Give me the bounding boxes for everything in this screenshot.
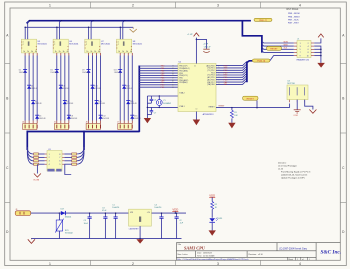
svg-text:HEADER 5X2: HEADER 5X2 — [297, 58, 310, 61]
bus lower right vertical — [83, 131, 85, 150]
svg-text:VDD: VDD — [172, 207, 178, 211]
wire U5 pin 3 column — [24, 53, 26, 124]
wire U6 pin B to bus — [59, 21, 61, 40]
net label oval RESET upper — [267, 46, 282, 50]
diode D6 label — [63, 86, 70, 90]
svg-text:RST Pinout: RST Pinout — [287, 8, 299, 11]
connector J4 — [22, 122, 37, 130]
svg-text:C8 .1uF: C8 .1uF — [204, 47, 212, 49]
svg-text:(C) 1997-2004 Kermit Gary: (C) 1997-2004 Kermit Gary — [279, 247, 308, 250]
svg-text:AT90S2313: AT90S2313 — [203, 113, 215, 116]
svg-text:4: 4 — [299, 4, 301, 8]
diode D12 — [98, 115, 102, 119]
power port VDD at LED — [209, 193, 215, 201]
svg-text:added D13-16, fixed Current: added D13-16, fixed Current — [281, 174, 308, 177]
svg-text:PB5 - MOSI: PB5 - MOSI — [288, 13, 300, 15]
diode D4 — [35, 115, 39, 119]
ground below CPU — [193, 120, 200, 126]
designator U2 — [179, 62, 182, 64]
wires RP1 to U1 — [39, 154, 48, 164]
junction on bus at U8 — [124, 20, 125, 21]
svg-text:4b: 4b — [98, 51, 100, 53]
resistor pack RP2 — [72, 153, 77, 165]
svg-text:3: 3 — [300, 46, 301, 48]
svg-text:2: 2 — [132, 4, 134, 8]
wire RESET net — [216, 105, 290, 107]
svg-text:4b: 4b — [35, 51, 37, 53]
svg-text:8.00MHZ: 8.00MHZ — [163, 103, 172, 105]
svg-text:7: 7 — [59, 157, 60, 159]
svg-text:V130LA2: V130LA2 — [65, 232, 73, 235]
title block date — [197, 252, 215, 258]
wires U1 to RP2 — [62, 154, 72, 164]
svg-text:+5 UP: +5 UP — [203, 44, 209, 46]
svg-text:Sheet: Sheet — [288, 258, 293, 261]
svg-text:Update Packages to DIPs: Update Packages to DIPs — [281, 177, 305, 180]
transistor U4 supervisor — [287, 81, 308, 103]
svg-text:1N4148: 1N4148 — [114, 72, 121, 74]
diode D13 — [118, 69, 122, 73]
wire XTAL1 — [147, 95, 178, 97]
svg-text:B: B — [342, 97, 344, 101]
wire U8 pin 6 column — [131, 53, 133, 124]
svg-text:1: 1 — [49, 154, 50, 156]
diode D6 — [59, 85, 63, 89]
connector J1 header — [297, 39, 311, 62]
label +5 UP — [187, 34, 193, 36]
svg-text:4: 4 — [49, 164, 50, 166]
diode D4 label — [39, 116, 46, 120]
wire RESET to U4 — [289, 104, 291, 108]
wire U8 pin 3 column — [119, 53, 121, 124]
ground below crystal — [144, 118, 151, 123]
power VCC arrow — [194, 33, 200, 37]
ground VCOM — [33, 174, 41, 182]
junction on COM line at U5 — [24, 27, 26, 29]
diode D11 — [94, 101, 98, 105]
svg-text:(PA) PA1: (PA) PA1 — [207, 83, 214, 86]
svg-text:3b: 3b — [63, 51, 65, 53]
capacitor C2 — [175, 212, 184, 238]
svg-text:XTAL2: XTAL2 — [179, 91, 184, 94]
wire U7 pin 5 column — [96, 53, 98, 124]
resistor pack RP1 — [34, 153, 39, 165]
capacitor C8 — [203, 44, 212, 53]
wire U3 ground pin — [139, 226, 141, 239]
voltage regulator U3 — [129, 209, 152, 230]
svg-text:J3: J3 — [15, 209, 17, 211]
title block Title — [177, 243, 182, 246]
wire crystal ground rail — [146, 96, 148, 118]
svg-text:PB7(AN0): PB7(AN0) — [179, 81, 187, 84]
capacitor C4 — [154, 205, 163, 239]
svg-text:1N4148: 1N4148 — [82, 72, 89, 74]
svg-text:2: 2 — [54, 44, 55, 46]
wire U7 pin 3 column — [88, 53, 90, 124]
wire COM line above driver ICs — [25, 26, 133, 28]
designator label U7 — [101, 41, 111, 46]
svg-text:RESET: RESET — [247, 98, 255, 100]
svg-text:3: 3 — [49, 161, 50, 163]
diode D8 — [67, 115, 71, 119]
ground at rail left — [28, 239, 35, 244]
wire fan from left bus to RP1 — [27, 147, 33, 164]
svg-text:1: 1 — [300, 43, 301, 45]
svg-text:Date: 10/8/2023: Date: 10/8/2023 — [197, 252, 213, 255]
diode D1 label — [19, 70, 26, 74]
svg-text:PB6 - MISO: PB6 - MISO — [288, 16, 300, 18]
svg-text:RESET: RESET — [209, 107, 216, 109]
ground COM below U4 — [293, 110, 300, 117]
title block size — [177, 253, 187, 256]
svg-text:RST - RST: RST - RST — [288, 23, 299, 25]
diode D13 label — [114, 70, 121, 74]
svg-text:MISO: MISO — [284, 45, 289, 47]
svg-text:J5: J5 — [54, 122, 56, 124]
diode D1 — [23, 69, 27, 73]
svg-text:J6: J6 — [86, 122, 88, 124]
svg-text:1N4148: 1N4148 — [63, 88, 70, 90]
svg-text:1N4148: 1N4148 — [126, 88, 133, 90]
svg-text:2b: 2b — [59, 51, 61, 53]
svg-text:PD1: PD1 — [161, 87, 165, 89]
svg-text:1N4148: 1N4148 — [102, 118, 109, 120]
wires bus to J1 left pins — [262, 41, 294, 52]
svg-text:Revision: v3.10: Revision: v3.10 — [249, 254, 264, 256]
net labels PB0-PD1 and pin numbers — [161, 66, 174, 89]
ground below LED1 — [209, 230, 216, 235]
wire U7 pin 4 column — [92, 53, 94, 124]
wire U5 pin A to COM line — [24, 27, 26, 39]
op-isolator U1 — [47, 149, 62, 172]
svg-text:RESET: RESET — [219, 105, 226, 107]
wire U6 pin 3 column — [56, 53, 58, 124]
wire U7 pin A to COM line — [88, 27, 90, 39]
svg-text:5: 5 — [59, 164, 60, 166]
designator label U5 — [38, 41, 48, 46]
title SAM3 CPU — [184, 246, 206, 251]
wire to capacitor C8 — [196, 39, 206, 49]
svg-text:8: 8 — [308, 52, 309, 54]
diode D5 — [55, 69, 59, 73]
svg-text:MOC3041: MOC3041 — [69, 44, 79, 46]
diode D16 label — [134, 116, 141, 120]
svg-text:2: 2 — [86, 44, 87, 46]
svg-text:5: 5 — [300, 49, 301, 51]
wire U8 pin 5 column — [127, 53, 129, 124]
wire PD bus to J1 pin9 — [270, 56, 294, 61]
svg-text:v1.0 Initial Prototype: v1.0 Initial Prototype — [278, 165, 298, 168]
wire U6 pin 5 column — [64, 53, 66, 124]
svg-text:PB7 - SCK: PB7 - SCK — [288, 19, 299, 21]
title block revision — [249, 254, 264, 256]
svg-text:2b: 2b — [27, 51, 29, 53]
title block sheet cells — [288, 257, 310, 261]
diode D17 — [61, 209, 72, 219]
svg-text:Y1: Y1 — [163, 100, 165, 102]
frame column numbers — [49, 4, 301, 266]
svg-text:2b: 2b — [122, 51, 124, 53]
title block copyright — [279, 247, 308, 250]
wire CPU VCC — [196, 38, 198, 64]
junction on COM line at U7 — [88, 27, 90, 29]
svg-text:1: 1 — [49, 262, 51, 266]
svg-text:1b: 1b — [55, 51, 57, 53]
junction on bus at U5 — [29, 20, 30, 21]
svg-text:D17: D17 — [61, 209, 64, 211]
svg-text:2: 2 — [49, 157, 50, 159]
wire U4 pin2 ground — [296, 100, 298, 110]
svg-text:RESET: RESET — [270, 49, 278, 51]
driver IC U6 — [53, 39, 69, 53]
wire CPU ground — [195, 112, 197, 120]
svg-text:1N4148: 1N4148 — [31, 88, 38, 90]
junction crystal nodes — [147, 95, 160, 108]
svg-text:SAM3 CPU: SAM3 CPU — [184, 246, 206, 251]
power port VDD at regulator — [172, 207, 178, 213]
svg-text:J4: J4 — [22, 122, 24, 124]
svg-text:4b: 4b — [67, 51, 69, 53]
svg-text:10: 10 — [196, 109, 198, 111]
diode D15 label — [130, 101, 137, 105]
svg-text:3: 3 — [217, 4, 219, 8]
junction at varistor — [59, 212, 61, 214]
title block file — [177, 258, 249, 261]
resistor R1 — [230, 108, 238, 123]
svg-text:4b: 4b — [130, 51, 132, 53]
svg-text:1N4148: 1N4148 — [94, 88, 101, 90]
diode D11 label — [98, 101, 105, 105]
capacitor C6 — [147, 96, 156, 103]
diode D15 — [126, 101, 130, 105]
svg-text:v1.25: v1.25 — [278, 169, 284, 171]
svg-text:10: 10 — [307, 55, 309, 57]
junction on bus at U6 — [61, 20, 62, 21]
capacitor C7 — [147, 107, 156, 114]
wire U7 pin B to bus — [91, 21, 93, 40]
value label ATtiny2313 — [203, 113, 215, 116]
svg-text:1N4148: 1N4148 — [98, 103, 105, 105]
net label oval RESET lower — [243, 96, 258, 107]
svg-text:U1: U1 — [48, 149, 50, 151]
wire J1 ground chain — [314, 46, 321, 63]
frame row letters — [6, 34, 345, 235]
wire ground rail — [31, 238, 182, 240]
capacitor C1 — [112, 205, 119, 239]
connector J5 — [54, 122, 69, 130]
wire U1 pin4 to ground — [36, 164, 38, 173]
svg-text:6: 6 — [59, 161, 60, 163]
diode D10 — [90, 85, 94, 89]
svg-text:R2: R2 — [215, 204, 217, 206]
svg-text:1N4148: 1N4148 — [35, 103, 42, 105]
svg-text:2b: 2b — [90, 51, 92, 53]
svg-text:MOC3041: MOC3041 — [133, 44, 143, 46]
crystal Y1 — [156, 96, 171, 107]
diode D14 label — [126, 86, 133, 90]
junction RESET at label — [256, 107, 258, 109]
svg-text:1: 1 — [297, 259, 298, 261]
pin stubs J1 — [294, 43, 314, 56]
diode D3 label — [35, 101, 42, 105]
svg-text:7: 7 — [300, 52, 301, 54]
diode D14 — [122, 85, 126, 89]
svg-text:1N4148: 1N4148 — [67, 103, 74, 105]
svg-text:PD[0..6]: PD[0..6] — [257, 61, 265, 63]
svg-text:1N4148: 1N4148 — [50, 72, 57, 74]
svg-text:1N4004: 1N4004 — [65, 216, 72, 218]
bus lower horizontal — [27, 131, 140, 133]
LED LED1 — [209, 218, 222, 231]
wire U5 pin 5 column — [32, 53, 34, 124]
diode D2 label — [31, 86, 38, 90]
driver IC U8 — [116, 39, 132, 53]
resistor R2 — [211, 202, 218, 218]
ground below J1 — [317, 63, 325, 68]
svg-text:R1: R1 — [234, 112, 236, 114]
svg-text:Time: 10:51:31 AM: Time: 10:51:31 AM — [197, 255, 215, 258]
svg-text:LED1: LED1 — [218, 218, 223, 220]
svg-text:1b: 1b — [86, 51, 88, 53]
svg-text:2: 2 — [308, 43, 309, 45]
svg-text:10uF/16: 10uF/16 — [154, 207, 161, 209]
bus PB main horizontal — [27, 21, 251, 24]
wire U6 pin A to COM line — [56, 27, 58, 39]
svg-text:2: 2 — [132, 262, 134, 266]
wire U7 pin 6 column — [100, 53, 102, 124]
driver IC U5 — [21, 39, 37, 53]
svg-text:21: 21 — [172, 87, 174, 89]
logo S&C Inc — [321, 250, 342, 256]
svg-text:S&C Inc.: S&C Inc. — [321, 250, 342, 256]
bus net label PB[0..7] — [254, 18, 272, 22]
svg-text:6: 6 — [308, 49, 309, 51]
svg-text:9: 9 — [300, 55, 301, 57]
bus lower left vertical — [26, 131, 28, 150]
svg-text:1N4148: 1N4148 — [130, 103, 137, 105]
diode D9 label — [82, 70, 89, 74]
ground below U3 — [136, 239, 143, 243]
svg-text:2: 2 — [118, 44, 119, 46]
wire U5 pin B to bus — [28, 21, 30, 40]
bus PD vertical — [247, 61, 252, 83]
svg-text:1N4148: 1N4148 — [39, 118, 46, 120]
note RST Pinout — [287, 8, 301, 25]
svg-text:1N4148: 1N4148 — [71, 118, 78, 120]
svg-text:VCOM: VCOM — [33, 179, 39, 181]
power VCC arrow at J1 — [318, 34, 324, 38]
diode D12 label — [102, 116, 109, 120]
wire U4 pin3 — [305, 100, 313, 110]
svg-text:VDD: VDD — [209, 193, 215, 197]
driver IC U7 — [85, 39, 101, 53]
wire U5 pin 4 column — [28, 53, 30, 124]
svg-text:File: C:\Users\Public\Documen: File: C:\Users\Public\Documents\AlteraPr… — [177, 258, 249, 261]
wire U1 pin5 stub — [65, 164, 71, 174]
svg-text:LM2937ET: LM2937ET — [129, 228, 140, 230]
svg-text:MOC3041: MOC3041 — [38, 44, 48, 46]
diode D5 label — [50, 70, 57, 74]
svg-text:8: 8 — [59, 154, 60, 156]
connector J6 — [86, 122, 101, 130]
wire U6 pin 6 column — [68, 53, 70, 124]
svg-text:RV1: RV1 — [65, 230, 69, 232]
op-amp U2 CPU — [178, 64, 216, 112]
svg-text:COM: COM — [293, 115, 298, 117]
svg-text:MOSI: MOSI — [284, 41, 289, 43]
diode D3 — [31, 101, 35, 105]
svg-text:10: 10 — [218, 84, 220, 86]
svg-text:B: B — [6, 97, 8, 101]
designator label U8 — [133, 41, 143, 46]
wire fan from right bus to RP2 — [77, 147, 84, 164]
wire U8 pin B to bus — [123, 21, 125, 40]
bus branch to J1 — [242, 21, 262, 53]
connector J3 power — [15, 209, 31, 216]
note Denotes — [278, 162, 311, 180]
wire U6 pin 4 column — [60, 53, 62, 124]
wires CPU port B to bus — [139, 66, 178, 87]
junction RESET at R1 — [231, 107, 233, 109]
wires CPU port D fan to bus — [216, 61, 247, 84]
frame tick marks top/bottom — [91, 2, 261, 266]
diode D9 — [86, 69, 90, 73]
designator label U6 — [69, 41, 79, 46]
wire J1 pin2 to VCC — [314, 38, 321, 43]
title block lines — [176, 243, 340, 261]
svg-text:1: 1 — [309, 259, 310, 261]
svg-text:10uF/16: 10uF/16 — [112, 207, 119, 209]
svg-text:J7: J7 — [117, 122, 119, 124]
svg-text:20: 20 — [194, 65, 196, 67]
bus net label PD[0..6] — [252, 59, 270, 63]
svg-text:1: 1 — [49, 4, 51, 8]
svg-text:3b: 3b — [94, 51, 96, 53]
bus vertical to CPU — [138, 66, 140, 132]
svg-text:Front Moving Squid on P1 Pin 3: Front Moving Squid on P1 Pin 3 — [281, 171, 311, 174]
svg-text:PA1: PA1 — [224, 83, 227, 86]
svg-text:1N4148: 1N4148 — [19, 72, 26, 74]
svg-text:1b: 1b — [23, 51, 25, 53]
wire power input — [31, 212, 186, 214]
frame tick marks sides — [5, 64, 347, 203]
diode D7 label — [67, 101, 74, 105]
arrow terminator on COM line — [130, 27, 137, 32]
diode D10 label — [94, 86, 101, 90]
ground chevron right of U4 — [309, 110, 316, 114]
svg-text:1b: 1b — [118, 51, 120, 53]
svg-text:3b: 3b — [126, 51, 128, 53]
diode D2 — [27, 85, 31, 89]
svg-text:MOC3041: MOC3041 — [101, 44, 111, 46]
ground below R1 — [228, 123, 235, 129]
net labels at J1 — [284, 41, 289, 49]
svg-text:2: 2 — [23, 44, 24, 46]
wire XTAL2 — [147, 106, 178, 108]
junction on COM line at U6 — [56, 27, 58, 29]
svg-text:3b: 3b — [31, 51, 33, 53]
capacitor C5 — [84, 212, 92, 238]
svg-text:J1: J1 — [297, 39, 299, 41]
diode D16 — [130, 115, 134, 119]
svg-text:4: 4 — [308, 46, 309, 48]
svg-text:3: 3 — [217, 262, 219, 266]
wire U5 pin 6 column — [36, 53, 38, 124]
svg-text:4: 4 — [299, 262, 301, 266]
svg-text:XTAL1: XTAL1 — [179, 105, 184, 108]
wire U8 pin 4 column — [123, 53, 125, 124]
connector J7 — [117, 122, 132, 130]
